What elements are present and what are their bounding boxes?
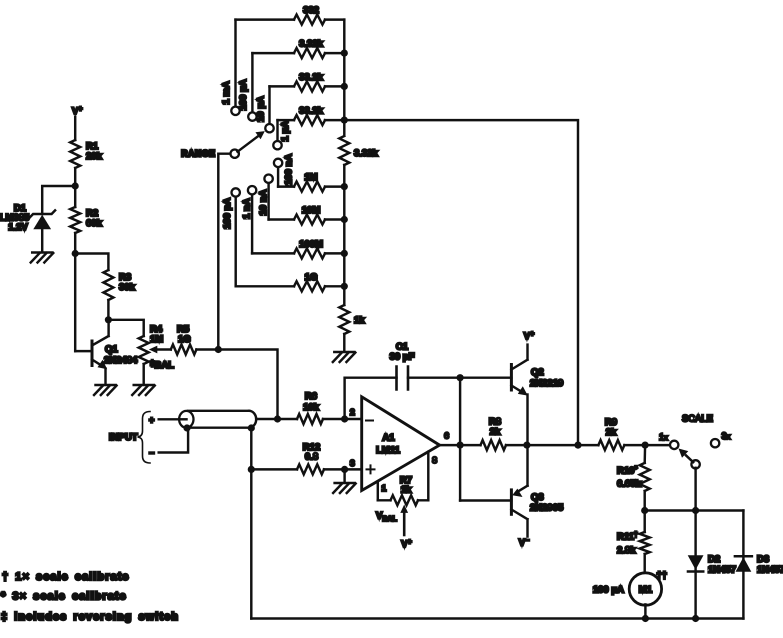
node shield/common junction xyxy=(248,424,255,431)
resistor 33.2k row4 xyxy=(294,115,325,125)
svg-text:V+: V+ xyxy=(72,106,82,117)
svg-text:V−: V− xyxy=(519,538,529,549)
wire bottom common rail xyxy=(251,617,743,619)
svg-text:1k: 1k xyxy=(354,315,365,326)
label SCALE xyxy=(682,414,713,424)
wire range contact to resistor 1G xyxy=(234,196,236,286)
resistor R6 xyxy=(297,414,323,424)
potentiometer R7 1k xyxy=(391,495,418,505)
node bus junction row 7 xyxy=(341,250,348,257)
label pin 3 xyxy=(350,458,355,468)
power V- (Q3 collector) xyxy=(519,538,529,549)
label R2 60k xyxy=(86,208,103,229)
wire 33.2k row3 row xyxy=(270,85,345,87)
label VBAL xyxy=(376,511,397,524)
ground (ladder) xyxy=(333,352,356,362)
label 33.2k (row 4) xyxy=(299,106,323,117)
resistor R8 xyxy=(481,440,506,450)
wire pin2 to C1 xyxy=(345,378,397,419)
node R8/driver-emitter junction xyxy=(523,442,530,449)
label 100M (row 7) xyxy=(299,239,323,250)
range contact circle (100M position) xyxy=(248,186,256,194)
label R1 20k xyxy=(86,141,103,162)
wire 3.32k row xyxy=(252,52,344,54)
wire junction to R3 xyxy=(75,254,108,271)
resistor 332 xyxy=(294,15,325,25)
label 1k xyxy=(354,315,365,326)
resistor ladder 1k vertical xyxy=(339,305,349,334)
svg-text:V+: V+ xyxy=(524,331,534,342)
svg-text:100 μA: 100 μA xyxy=(593,585,624,596)
svg-text:1.2V: 1.2V xyxy=(8,222,28,233)
wire 33.2k row4 row xyxy=(278,119,345,121)
node shield/minus junction xyxy=(183,424,190,431)
svg-text:+: + xyxy=(149,415,154,425)
label 10 μA (rotated range value) xyxy=(256,96,267,122)
label C1 30 pF xyxy=(390,342,415,363)
svg-text:R6: R6 xyxy=(305,391,317,402)
wire 10M row xyxy=(269,218,345,220)
wire range contact to resistor 3.32k xyxy=(251,53,253,113)
label R5 1G xyxy=(177,324,191,345)
wire 100M row xyxy=(252,252,344,254)
node bus junction row 4 xyxy=(341,117,348,124)
resistor R9 xyxy=(598,440,624,450)
svg-text:† 1× scale calibrate: † 1× scale calibrate xyxy=(2,571,130,583)
range rotor contact xyxy=(231,150,239,158)
wire Q3 base xyxy=(460,499,511,501)
scale contact 1x xyxy=(670,441,678,449)
svg-text:1G: 1G xyxy=(305,272,318,283)
footnote 3x scale calibrate xyxy=(1,591,127,603)
label 100 μA (rotated range value) xyxy=(238,79,249,110)
svg-text:1N457: 1N457 xyxy=(708,565,736,576)
wire R4 to ground xyxy=(142,364,144,384)
wire range contact to resistor 10M xyxy=(267,182,269,219)
node Q1 collector junction xyxy=(105,316,112,323)
meter M1 100uA xyxy=(629,573,661,605)
node bus junction row 8 xyxy=(341,283,348,290)
svg-text:1M: 1M xyxy=(150,334,163,345)
power V+ (Q2 collector) xyxy=(524,331,534,342)
resistor R3 xyxy=(103,270,113,300)
resistor 33.2k row3 xyxy=(294,81,325,91)
label D2 1N457 xyxy=(708,554,736,576)
node common/R12 junction xyxy=(248,466,255,473)
range contact circle (10M position) xyxy=(264,175,272,183)
svg-text:6.65k: 6.65k xyxy=(617,479,641,490)
label pin 2 xyxy=(350,407,355,417)
range contact circle (1G position) xyxy=(232,188,240,196)
wire range rotor to vertical xyxy=(218,154,231,350)
wire D2 branch xyxy=(694,511,696,619)
wire R10 leads xyxy=(643,445,646,510)
svg-text:* 3× scale calibrate: * 3× scale calibrate xyxy=(1,591,127,603)
svg-text:10k: 10k xyxy=(303,402,320,413)
svg-text:LM11: LM11 xyxy=(376,445,400,456)
range contact circle (3.32k position) xyxy=(248,112,256,120)
node pin2 junction xyxy=(341,415,348,422)
label input plus xyxy=(149,415,154,425)
node output junction xyxy=(457,442,464,449)
range contact circle (332 position) xyxy=(231,107,239,115)
op-amp A1 LM11 triangle xyxy=(362,397,440,491)
label 10 nA (rotated range value) xyxy=(258,189,269,215)
label 332 (row 1) xyxy=(303,5,319,16)
svg-text:D2: D2 xyxy=(708,554,720,565)
label 100 uA (meter) xyxy=(593,585,624,596)
svg-text:‡BAL: ‡BAL xyxy=(150,359,174,371)
node bus junction row 2 xyxy=(341,50,348,57)
node C1/driver junction xyxy=(457,374,464,381)
svg-text:2k: 2k xyxy=(490,427,501,438)
wire R12 to pin3 xyxy=(324,468,362,470)
power V+ (left supply) xyxy=(72,106,82,117)
svg-text:60k: 60k xyxy=(86,218,103,229)
label 3x xyxy=(722,431,731,441)
wire coax center conductor out xyxy=(256,418,277,420)
scale contact 3x xyxy=(711,439,719,447)
wire R2 bottom down to Q1 base xyxy=(74,233,76,351)
transistor Q1 2N2484 xyxy=(92,320,109,384)
wire R6 to pin2 xyxy=(323,418,362,420)
R7 wiper arrow xyxy=(400,505,408,536)
svg-text:−: − xyxy=(149,448,154,458)
svg-text:30 pF: 30 pF xyxy=(390,352,415,363)
resistor 1M xyxy=(294,182,325,192)
label 100 nA (rotated range value) xyxy=(284,154,295,185)
wire pin3 to ground xyxy=(343,469,345,482)
label 1M (row 5) xyxy=(304,172,317,183)
node R10/R11 junction xyxy=(641,507,648,514)
resistor 100M xyxy=(294,248,325,258)
wire 1M row xyxy=(278,185,344,187)
svg-text:100 μA: 100 μA xyxy=(238,79,249,110)
resistor R1 xyxy=(70,140,80,168)
svg-text:V+: V+ xyxy=(401,539,411,550)
svg-text:100 pA: 100 pA xyxy=(222,198,233,229)
label INPUT xyxy=(109,432,138,443)
label 3.32k (vertical) xyxy=(354,148,378,159)
wire 1k to ground xyxy=(343,334,345,351)
label pin 1 xyxy=(382,483,387,493)
label 1 nA (rotated range value) xyxy=(242,198,253,219)
label pin 6 xyxy=(444,431,449,441)
label 100 pA (rotated range value) xyxy=(222,198,233,229)
wire pin 8 xyxy=(427,452,429,501)
svg-text:10M: 10M xyxy=(302,205,321,216)
svg-text:VBAL: VBAL xyxy=(376,511,397,524)
diode D2 1N457 xyxy=(688,555,704,571)
svg-text:33.2k: 33.2k xyxy=(299,106,323,117)
svg-text:1M: 1M xyxy=(304,172,317,183)
resistor ladder 3.32k vertical xyxy=(339,136,349,165)
range contact circle (33.2k row4 position) xyxy=(273,141,281,149)
resistor R5 xyxy=(171,345,197,355)
label pin 8 xyxy=(432,455,437,465)
footnote includes reversing switch xyxy=(1,611,179,623)
wire R12 left lead xyxy=(251,468,297,470)
scale rotor contact xyxy=(691,460,699,468)
ground (pin 3) xyxy=(333,483,356,493)
wire pin 1 xyxy=(377,482,379,501)
node R1/R2/D1 junction xyxy=(72,182,79,189)
svg-text:RANGE: RANGE xyxy=(181,149,215,159)
resistor 1G xyxy=(294,281,325,291)
svg-text:1x: 1x xyxy=(659,432,668,442)
ground (D1) xyxy=(31,253,54,263)
label input minus xyxy=(149,448,154,458)
resistor 3.32k xyxy=(294,48,325,58)
wire feedback (1uA row to output rail) xyxy=(344,120,578,445)
svg-text:R10*: R10* xyxy=(617,466,637,477)
label BAL (reversing-switch balance) xyxy=(150,359,174,371)
power V+ (R7 wiper) xyxy=(401,539,411,550)
diode D1 zener LM385 xyxy=(30,210,55,229)
svg-text:3.32k: 3.32k xyxy=(299,39,323,50)
label Q3 2N2905 xyxy=(530,492,564,514)
wire range contact to resistor 1M xyxy=(277,166,279,186)
label R12 0.8 xyxy=(303,442,320,463)
svg-text:6: 6 xyxy=(444,431,449,441)
wire R6 left lead xyxy=(278,418,298,420)
wire Q1 base xyxy=(75,350,91,352)
svg-text:1G: 1G xyxy=(178,334,191,345)
range wiper arrow xyxy=(238,131,265,152)
wire driver node vertical xyxy=(459,378,461,501)
ground (R4) xyxy=(132,385,155,395)
wire V+ to R1 xyxy=(74,117,76,140)
op-amp minus sign xyxy=(366,420,373,422)
wire shield to common rail xyxy=(250,428,252,619)
label dagger-dagger xyxy=(657,570,668,581)
label R10* 6.65k xyxy=(617,466,641,490)
label R7 1k xyxy=(400,475,412,496)
label 1 μA (rotated range value) xyxy=(280,121,291,142)
svg-text:2N2219: 2N2219 xyxy=(530,378,563,389)
svg-text:2N2484: 2N2484 xyxy=(104,355,138,366)
label R11 2.8k xyxy=(617,532,638,557)
svg-text:M1: M1 xyxy=(639,585,653,596)
svg-text:3: 3 xyxy=(350,458,355,468)
op-amp plus sign xyxy=(367,465,375,473)
svg-text:2.8k: 2.8k xyxy=(617,545,636,556)
wire R9 to 1x node xyxy=(624,444,670,446)
node bus junction row 5 xyxy=(341,183,348,190)
wire D1 to ground xyxy=(41,229,43,251)
wire M1 to rail xyxy=(644,604,646,618)
node bus junction row 3 xyxy=(341,83,348,90)
potentiometer R4 1M xyxy=(139,336,149,364)
wire input plus lead xyxy=(159,418,180,420)
svg-text:‡ includes reversing switch: ‡ includes reversing switch xyxy=(1,611,179,623)
scale wiper arrow xyxy=(679,449,694,463)
node D2/rail junction xyxy=(692,615,699,622)
svg-text:SCALE: SCALE xyxy=(682,414,713,424)
svg-text:33.2k: 33.2k xyxy=(299,72,323,83)
ground (Q1 emitter) xyxy=(94,385,117,395)
label 3.32k (row 2) xyxy=(299,39,323,50)
wire R1 to node xyxy=(74,168,76,207)
wire C1 to driver node xyxy=(408,376,460,378)
label 10M (row 6) xyxy=(302,205,321,216)
wire node to D1 xyxy=(42,186,75,214)
label R6 10k xyxy=(303,391,320,413)
resistor 10M xyxy=(294,215,325,225)
wire clamp rail xyxy=(645,509,744,511)
wire R11 leads xyxy=(643,511,645,574)
svg-text:1N457: 1N457 xyxy=(757,565,783,576)
wire scale rotor down xyxy=(694,468,696,511)
transistor Q3 2N2905 xyxy=(511,445,527,536)
resistor R2 xyxy=(70,207,80,233)
label 1G (row 8) xyxy=(305,272,318,283)
node input/R6 junction xyxy=(274,415,281,422)
svg-text:20k: 20k xyxy=(86,151,103,162)
node feedback/output junction xyxy=(574,442,581,449)
wire range contact to resistor 33.2k row3 xyxy=(268,86,270,124)
R4 wiper arrow xyxy=(149,346,171,354)
label 1x xyxy=(659,432,668,442)
svg-text:Q2: Q2 xyxy=(531,367,544,378)
svg-text:0.8: 0.8 xyxy=(305,452,318,463)
resistor R12 xyxy=(297,464,324,474)
node R2 bottom junction xyxy=(72,250,79,257)
label Q1 2N2484 xyxy=(104,344,138,366)
svg-text:30k: 30k xyxy=(119,282,136,293)
node bus junction row 6 xyxy=(341,216,348,223)
node clamp/D2 junction xyxy=(692,507,699,514)
wire output rail xyxy=(460,444,598,446)
label Q2 2N2219 xyxy=(530,367,563,389)
wire range contact to resistor 332 xyxy=(234,20,236,108)
svg-text:INPUT: INPUT xyxy=(109,432,138,443)
wire op-amp output xyxy=(440,444,461,446)
resistor R10 xyxy=(640,463,650,491)
node R5/range-common junction xyxy=(215,346,222,353)
label R8 2k xyxy=(489,417,501,438)
svg-text:R11†: R11† xyxy=(617,532,638,543)
svg-text:1 μA: 1 μA xyxy=(280,121,291,142)
wire D3 branch xyxy=(742,511,744,619)
svg-text:1 mA: 1 mA xyxy=(221,81,232,104)
label R3 30k xyxy=(119,272,136,293)
svg-text:8: 8 xyxy=(432,455,437,465)
label 33.2k (row 3) xyxy=(299,72,323,83)
transistor Q2 2N2219 xyxy=(511,345,527,446)
svg-text:10 μA: 10 μA xyxy=(256,96,267,122)
svg-text:1: 1 xyxy=(382,483,387,493)
label RANGE xyxy=(181,149,215,159)
wire R7 leads xyxy=(378,499,427,501)
footnote 1x scale calibrate xyxy=(2,571,130,583)
wire driver node to Q2 base xyxy=(460,376,511,378)
svg-text:2N2905: 2N2905 xyxy=(530,503,564,514)
wire range contact to resistor 33.2k row4 xyxy=(276,120,278,142)
input brace xyxy=(138,412,151,464)
svg-text:A1: A1 xyxy=(382,433,395,444)
range contact circle (33.2k row3 position) xyxy=(265,124,273,132)
wire ladder bus (upper) xyxy=(343,20,345,135)
svg-text:3x: 3x xyxy=(722,431,731,441)
svg-text:1k: 1k xyxy=(401,485,412,496)
range contact circle (1M position) xyxy=(274,159,282,167)
label R9 2k xyxy=(605,417,617,438)
svg-text:10 nA: 10 nA xyxy=(258,189,269,215)
wire R5 to junction xyxy=(196,348,218,350)
resistor R11 xyxy=(640,532,650,554)
label R4 1M xyxy=(150,324,163,345)
capacitor C1 30pF xyxy=(397,367,409,390)
wire range contact to resistor 100M xyxy=(251,194,253,254)
label D3 1N457 xyxy=(757,554,783,576)
svg-text:D3: D3 xyxy=(757,554,769,565)
wire collector node to R4 xyxy=(108,320,143,336)
svg-text:100M: 100M xyxy=(299,239,323,250)
label 1 mA (rotated range value) xyxy=(221,81,232,104)
input coax shield (cable) xyxy=(179,411,256,428)
svg-text:2k: 2k xyxy=(606,427,617,438)
svg-text:100 nA: 100 nA xyxy=(284,154,295,185)
wire 332 row xyxy=(236,18,345,20)
node R9/R10 junction xyxy=(642,442,649,449)
svg-text:1 nA: 1 nA xyxy=(242,198,253,219)
node M1/rail junction xyxy=(642,615,649,622)
wire ladder bus (lower) xyxy=(343,165,345,305)
diode D3 1N457 xyxy=(735,556,752,572)
label D1 LM385 1.2V xyxy=(0,203,30,233)
wire junction to input node xyxy=(218,350,277,420)
svg-text:332: 332 xyxy=(303,5,319,16)
svg-text:††: †† xyxy=(657,570,668,581)
svg-text:2: 2 xyxy=(350,407,355,417)
node pin3 junction xyxy=(341,466,348,473)
svg-text:Q1: Q1 xyxy=(105,344,118,355)
svg-text:3.32k: 3.32k xyxy=(354,148,378,159)
svg-text:Q3: Q3 xyxy=(531,492,544,503)
wire R3 to collector node xyxy=(107,300,109,320)
wire input minus lead xyxy=(159,428,188,452)
label A1 LM11 xyxy=(376,433,400,456)
wire 1G row xyxy=(236,285,345,287)
